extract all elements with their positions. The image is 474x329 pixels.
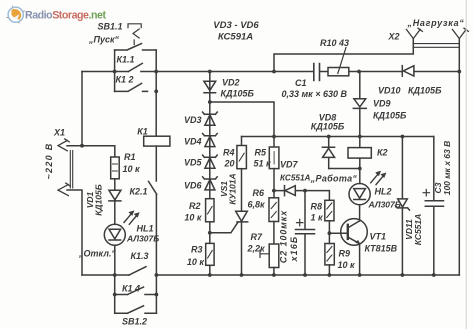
svg-text:2,2к: 2,2к bbox=[247, 244, 266, 254]
wire left vertical from bus to X1 bbox=[81, 72, 83, 146]
wire R1 to VD1 bbox=[114, 179, 116, 190]
svg-text:К1 4: К1 4 bbox=[122, 284, 140, 294]
wire R2 to R3 bbox=[209, 222, 211, 244]
svg-text:R10 43: R10 43 bbox=[320, 38, 349, 48]
svg-text:10 к: 10 к bbox=[338, 260, 356, 270]
logo RadioStorage.net bbox=[7, 6, 107, 24]
svg-text:К2.1: К2.1 bbox=[129, 187, 147, 197]
resistor R10 bbox=[328, 68, 349, 76]
resistor R1 bbox=[111, 157, 120, 179]
resistor R3 bbox=[206, 243, 214, 265]
svg-text:20: 20 bbox=[223, 159, 234, 169]
wire X1 upper pin to R1 corner bbox=[67, 146, 115, 157]
diode VD9 bbox=[353, 72, 366, 137]
diode VD2 bbox=[204, 81, 216, 93]
svg-text:К1.3: К1.3 bbox=[130, 251, 148, 261]
svg-text:К2: К2 bbox=[377, 148, 388, 158]
svg-text:АЛ307Б: АЛ307Б bbox=[126, 234, 159, 244]
svg-text:„Работа“: „Работа“ bbox=[310, 174, 358, 184]
svg-text:R8: R8 bbox=[311, 202, 323, 212]
wire VS1 cathode to rail bbox=[241, 222, 243, 275]
switch SB1.1 button actuator bbox=[128, 24, 141, 45]
svg-text:R2: R2 bbox=[189, 201, 201, 211]
svg-text:VD10 КД105Б: VD10 КД105Б bbox=[378, 86, 442, 96]
wire X1 lower pin down left rail bbox=[67, 190, 82, 275]
svg-text:КД105Б: КД105Б bbox=[373, 111, 407, 121]
svg-text:X2: X2 bbox=[388, 32, 400, 42]
wire mid bus to R5 bbox=[273, 137, 275, 148]
svg-text:VD9: VD9 bbox=[373, 99, 391, 109]
LED HL1 bbox=[104, 224, 125, 245]
wire mid bus bbox=[242, 136, 434, 138]
resistor R4 bbox=[237, 146, 247, 169]
svg-text:VD3 - VD6: VD3 - VD6 bbox=[213, 20, 259, 31]
capacitor C3 bbox=[425, 137, 443, 276]
wire right rail bbox=[458, 39, 460, 275]
svg-text:КТ815В: КТ815В bbox=[365, 244, 398, 254]
svg-text:1 к: 1 к bbox=[311, 213, 324, 223]
resistor R2 bbox=[206, 199, 214, 222]
svg-text:х16Б: х16Б bbox=[289, 236, 299, 263]
svg-text:X1: X1 bbox=[53, 128, 65, 138]
svg-text:~220 В: ~220 В bbox=[44, 142, 54, 179]
capacitor C1 bbox=[314, 64, 320, 81]
wire risers bottom block bbox=[115, 275, 157, 313]
connector X1 pin 2 bbox=[58, 183, 70, 196]
relay coil K1 bbox=[144, 136, 170, 146]
svg-text:VD6: VD6 bbox=[184, 181, 203, 191]
wire R6 top bbox=[273, 191, 275, 198]
svg-text:КС551А: КС551А bbox=[280, 174, 310, 183]
svg-text:C1: C1 bbox=[295, 78, 307, 88]
svg-text:HL1: HL1 bbox=[137, 224, 154, 234]
contact K1.2 bbox=[115, 83, 148, 91]
svg-text:К1 2: К1 2 bbox=[115, 75, 133, 85]
contact K1.1 bbox=[128, 63, 142, 71]
diode VD10 bbox=[402, 66, 414, 77]
svg-text:КД105Б: КД105Б bbox=[94, 184, 104, 216]
switch SB1.2 bbox=[115, 306, 157, 313]
wire upper branch to X2 bbox=[274, 39, 413, 72]
wire mid bus to R4 bbox=[241, 137, 243, 146]
zener VD5 bbox=[203, 155, 218, 168]
svg-text:10 к: 10 к bbox=[123, 164, 141, 174]
zener VD3 bbox=[203, 112, 218, 125]
svg-text:К1.1: К1.1 bbox=[116, 55, 134, 65]
svg-text:VD2: VD2 bbox=[222, 78, 240, 88]
svg-text:„Пуск“: „Пуск“ bbox=[88, 35, 120, 45]
svg-text:VD7: VD7 bbox=[280, 160, 299, 170]
svg-text:R6: R6 bbox=[253, 188, 265, 198]
capacitor C2 bbox=[296, 191, 315, 275]
resistor R5 bbox=[269, 147, 279, 169]
wire top bus bbox=[82, 71, 459, 73]
wire R3 to rail bbox=[209, 265, 211, 275]
wire VS1 gate bbox=[210, 222, 238, 233]
wire VD7 node to R8 corner bbox=[305, 191, 329, 201]
wire R7 to rail bbox=[273, 268, 275, 276]
resistor R8 bbox=[325, 200, 334, 221]
svg-text:R9: R9 bbox=[339, 249, 351, 259]
svg-text:„Откл.“: „Откл.“ bbox=[78, 249, 116, 259]
wire VD2 node to mid bus bbox=[210, 102, 274, 137]
svg-text:R4: R4 bbox=[223, 148, 235, 158]
svg-text:VD5: VD5 bbox=[184, 158, 203, 168]
svg-text:R5: R5 bbox=[255, 148, 267, 158]
svg-text:RadioStorage.net: RadioStorage.net bbox=[25, 10, 106, 22]
svg-text:SB1.2: SB1.2 bbox=[122, 317, 147, 327]
svg-text:6,8к: 6,8к bbox=[248, 200, 266, 210]
wire load cable double line bbox=[413, 44, 459, 48]
svg-text:VT1: VT1 bbox=[370, 232, 387, 242]
zener VD11 bbox=[396, 137, 410, 276]
transistor VT1 bbox=[341, 219, 368, 246]
connector X1 pin 1 bbox=[58, 139, 69, 151]
wire R5 to VD7 node bbox=[273, 169, 275, 191]
contact K1.4 bbox=[115, 287, 157, 294]
diode VD8 bbox=[322, 137, 334, 169]
LED HL2 bbox=[359, 169, 361, 184]
switch SB1.1 contact row bbox=[115, 44, 157, 50]
wire mains cable double line bbox=[70, 151, 72, 189]
svg-text:„Нагрузка“: „Нагрузка“ bbox=[407, 18, 465, 28]
diode VD1 bbox=[109, 190, 121, 201]
svg-text:100 мк х 63 В: 100 мк х 63 В bbox=[442, 141, 452, 196]
svg-text:10 к: 10 к bbox=[187, 257, 205, 267]
svg-text:SB1.1: SB1.1 bbox=[97, 22, 122, 32]
resistor R7 trimmer bbox=[269, 244, 279, 268]
svg-text:C2 100мкх: C2 100мкх bbox=[279, 210, 289, 263]
svg-text:R1: R1 bbox=[124, 152, 136, 162]
svg-text:КС591А: КС591А bbox=[218, 32, 253, 43]
wire VD2-VD6 chain bbox=[209, 72, 211, 199]
contact K2.1 bbox=[149, 181, 157, 275]
relay coil K2 bbox=[359, 137, 361, 148]
svg-text:51 к: 51 к bbox=[254, 159, 272, 169]
svg-text:КД105Б: КД105Б bbox=[311, 122, 345, 132]
svg-text:HL2: HL2 bbox=[375, 187, 392, 197]
resistor R9 bbox=[325, 244, 334, 265]
svg-text:R7: R7 bbox=[251, 232, 263, 242]
diode VD7 bbox=[274, 186, 305, 196]
zener VD6 bbox=[203, 177, 218, 190]
wire K1 coil to K2.1 bbox=[155, 146, 157, 181]
thyristor VS1 bbox=[236, 211, 248, 222]
contact K1.3 bbox=[129, 267, 146, 275]
wire riser right of switch block bbox=[155, 50, 157, 136]
wire VD8 bottom to K2 bottom bbox=[329, 168, 360, 170]
svg-text:VD3: VD3 bbox=[184, 115, 202, 125]
svg-text:КС551А: КС551А bbox=[413, 214, 423, 246]
connector X2 pin 2 bbox=[452, 28, 468, 38]
svg-text:К1: К1 bbox=[137, 127, 148, 137]
svg-text:R3: R3 bbox=[191, 245, 203, 255]
wire R9 leads bbox=[328, 233, 330, 275]
resistor R6 bbox=[269, 198, 279, 222]
svg-text:VD4: VD4 bbox=[184, 137, 202, 147]
wire R4 to VS1 bbox=[241, 169, 243, 212]
svg-text:10 к: 10 к bbox=[184, 213, 202, 223]
wire R6 to R7 bbox=[273, 222, 275, 245]
svg-text:0,33 мк × 630 В: 0,33 мк × 630 В bbox=[282, 89, 348, 99]
svg-text:КД105Б: КД105Б bbox=[221, 89, 255, 99]
svg-text:КУ101А: КУ101А bbox=[228, 173, 238, 204]
wire VD1 to HL1 bbox=[114, 201, 116, 224]
wire R8 to base node bbox=[329, 221, 347, 233]
svg-text:АЛ307Б: АЛ307Б bbox=[368, 200, 401, 210]
connector X2 pin 1 bbox=[406, 28, 422, 38]
zener VD4 bbox=[203, 134, 218, 147]
wire riser left of switch block bbox=[114, 50, 116, 91]
wire bottom rail bbox=[82, 274, 459, 276]
scan page edge line bbox=[465, 0, 467, 329]
wire HL1 to bottom rail bbox=[114, 245, 116, 275]
